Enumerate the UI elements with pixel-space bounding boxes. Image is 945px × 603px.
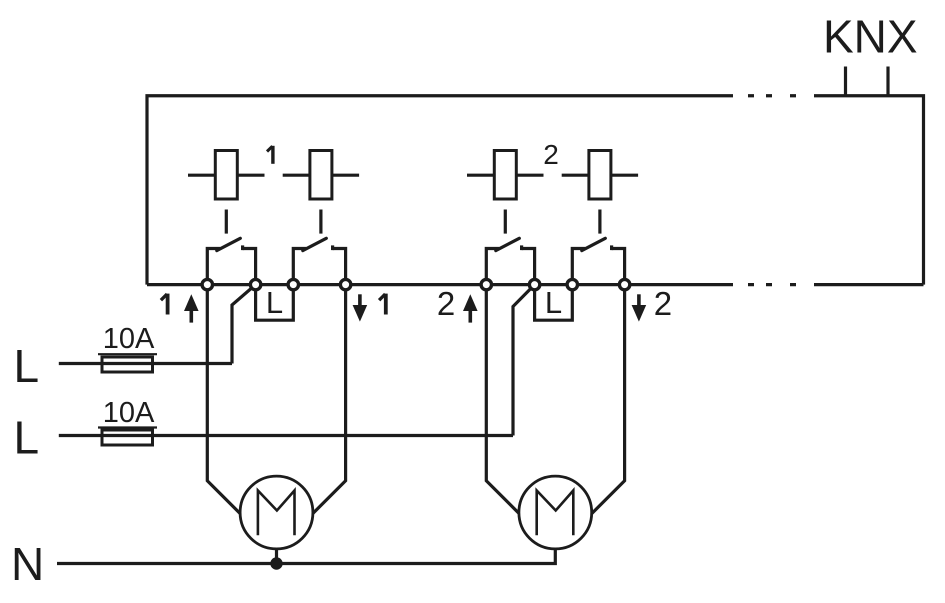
interlock L channel 2 <box>535 285 573 321</box>
phase label L2 <box>14 412 40 464</box>
wire L1 riser to t2 <box>232 285 256 364</box>
terminal 2 ch2 <box>529 279 539 289</box>
svg-text:L: L <box>14 340 40 392</box>
down arrow ch1 label <box>379 294 386 315</box>
svg-text:2: 2 <box>543 139 559 170</box>
relay coil K1 <box>188 151 265 200</box>
motor M1 <box>240 476 313 549</box>
up arrow ch1 <box>184 294 199 322</box>
KNX bus pin 1 <box>844 67 847 96</box>
switch S3 <box>486 238 534 281</box>
up arrow ch1 label <box>161 294 168 315</box>
down arrow ch2 <box>632 294 647 321</box>
wire neutral N <box>57 513 555 564</box>
neutral label N <box>11 538 44 590</box>
link K2 to S2 <box>319 210 322 234</box>
wire t4 to motor M1 <box>306 285 346 521</box>
up arrow ch2 label <box>437 285 455 322</box>
link K3 to S3 <box>504 210 507 234</box>
svg-text:10A: 10A <box>103 397 155 429</box>
wire motor M1 to N <box>275 513 278 564</box>
up arrow ch2 <box>463 294 478 322</box>
svg-text:10A: 10A <box>103 323 155 355</box>
wire L2 riser to t2 of channel 2 <box>513 285 535 436</box>
link K4 to S4 <box>598 210 601 234</box>
down arrow ch2 label <box>654 285 672 322</box>
interlock L channel 1 <box>256 285 294 321</box>
wire phase L1 <box>59 362 232 365</box>
KNX label <box>823 11 918 63</box>
terminal 4 ch2 <box>619 279 629 289</box>
device outline <box>147 96 924 285</box>
switch S4 <box>572 238 624 281</box>
relay coil K3 <box>467 151 544 200</box>
svg-text:L: L <box>545 285 562 320</box>
terminal 3 ch2 <box>567 279 577 289</box>
relay coil K2 <box>283 151 359 200</box>
KNX bus pin 2 <box>886 67 889 96</box>
svg-text:2: 2 <box>437 285 455 322</box>
down arrow ch1 <box>353 294 368 321</box>
svg-text:N: N <box>11 538 44 590</box>
svg-text:KNX: KNX <box>823 11 918 63</box>
terminal 3 ch1 <box>288 279 298 289</box>
wire t1 ch2 to motor M2 <box>486 285 526 521</box>
channel 1 label <box>267 146 273 164</box>
fuse F1 10A <box>98 323 157 372</box>
channel 2 label <box>543 139 559 170</box>
phase label L1 <box>14 340 40 392</box>
motor M2 <box>519 476 592 549</box>
terminal 4 ch1 <box>340 279 350 289</box>
terminal 2 ch1 <box>250 279 260 289</box>
fuse F2 10A <box>98 397 157 445</box>
link K1 to S1 <box>225 210 228 234</box>
wire t4 ch2 to motor M2 <box>585 285 625 521</box>
svg-text:L: L <box>266 285 283 320</box>
relay coil K4 <box>562 151 638 200</box>
switch S1 <box>207 238 255 281</box>
wire phase L2 <box>59 434 513 437</box>
svg-text:2: 2 <box>654 285 672 322</box>
svg-text:L: L <box>14 412 40 464</box>
switch S2 <box>293 238 345 281</box>
junction node on N <box>270 557 282 569</box>
wire t1 to motor M1 <box>207 285 247 521</box>
terminal 1 ch2 <box>481 279 491 289</box>
terminal 1 ch1 <box>202 279 212 289</box>
